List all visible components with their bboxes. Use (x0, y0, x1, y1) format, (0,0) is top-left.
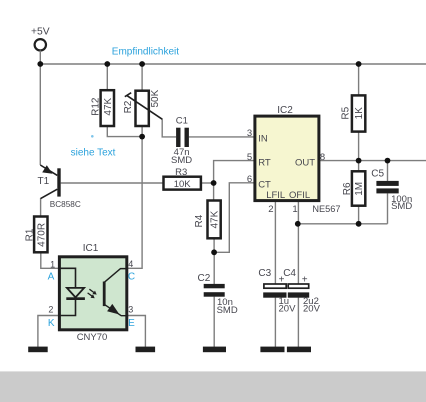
wire C3 to ground (274, 298, 276, 347)
svg-text:R3: R3 (175, 167, 187, 178)
svg-text:CNY70: CNY70 (77, 332, 108, 343)
resistor R3 (164, 167, 201, 190)
svg-text:C3: C3 (258, 268, 271, 279)
ground C4 (287, 347, 311, 353)
resistor R5 (340, 95, 365, 131)
wire filter rail OFIL to C5 (298, 223, 388, 225)
svg-text:OUT: OUT (295, 157, 315, 168)
wire IC2 pin 1 OFIL down to C4 (297, 201, 299, 284)
svg-text:20V: 20V (279, 303, 297, 314)
svg-text:T1: T1 (38, 176, 50, 187)
svg-text:LFIL: LFIL (266, 190, 285, 201)
svg-text:C4: C4 (283, 268, 296, 279)
svg-text:+5V: +5V (31, 26, 50, 37)
wire +5V circle to rail and down to T1 emitter (39, 50, 41, 165)
svg-text:IC1: IC1 (83, 243, 99, 254)
wire C5 bottom to filter rail (387, 193, 389, 223)
wire C1 to IC2 pin 3 IN (189, 136, 255, 138)
wire R2 wiper elbow to C1 (162, 119, 176, 137)
svg-text:IC2: IC2 (277, 105, 293, 116)
node R12 top junction (104, 61, 110, 67)
svg-text:20V: 20V (303, 303, 321, 314)
svg-text:OFIL: OFIL (289, 190, 310, 201)
wire R1 to IC1 pin 1 (41, 252, 60, 268)
gray footer band (0, 371, 426, 402)
capacitor C2 (198, 273, 238, 316)
svg-text:10K: 10K (174, 179, 192, 190)
svg-text:47K: 47K (210, 210, 221, 228)
wire R4 bottom to node (213, 238, 215, 252)
wire R3 to node (201, 182, 214, 184)
wire IC1 pin 2 to ground (38, 316, 60, 348)
wire node down to IC1 pin 4 (127, 137, 142, 269)
svg-text:C2: C2 (198, 273, 211, 284)
wire C5 top stub (387, 161, 389, 181)
svg-text:R4: R4 (194, 214, 205, 227)
wire R12 bottom elbow to node (107, 126, 142, 137)
svg-text:1K: 1K (354, 107, 365, 120)
wire T1 base to R3 (61, 182, 164, 184)
svg-text:A: A (48, 272, 55, 283)
wire R12 top stub (106, 64, 108, 91)
IC1 internal phototransistor (103, 269, 127, 316)
ground C3 (260, 347, 284, 353)
svg-text:6: 6 (247, 174, 252, 185)
svg-text:3: 3 (247, 128, 252, 139)
ground C2 (203, 347, 226, 353)
wire C4 to ground (297, 298, 299, 347)
svg-text:1: 1 (292, 204, 297, 215)
IC1 internal LED (59, 268, 85, 315)
node R4/CT/C2 junction (211, 249, 217, 255)
svg-text:IN: IN (258, 133, 268, 144)
ground IC1 pin 3 (136, 347, 156, 353)
electrolytic capacitor C3 (258, 268, 296, 315)
resistor R1 (25, 217, 48, 253)
svg-text:R2: R2 (123, 100, 134, 113)
potentiometer R2 (123, 89, 162, 126)
wire IC2 pin 2 LFIL down to C3 (274, 201, 276, 284)
tone decoder IC2 NE567 (255, 105, 341, 214)
node +5V/T1 junction (37, 61, 43, 67)
node R12/R2 bottom junction (139, 134, 145, 140)
svg-text:R1: R1 (25, 228, 36, 241)
wire IC2 pin 6 CT elbow to node (214, 183, 255, 253)
node R2 top junction (139, 61, 145, 67)
capacitor C1 (171, 116, 192, 166)
svg-text:2: 2 (268, 204, 273, 215)
node R5/OUT junction (356, 158, 362, 164)
svg-text:+: + (302, 275, 308, 286)
svg-text:470R: 470R (36, 223, 47, 247)
+5V supply symbol (31, 26, 50, 50)
electrolytic capacitor C4 (283, 268, 320, 315)
svg-text:SMD: SMD (171, 155, 192, 166)
wire R6 bottom to filter rail (358, 206, 360, 224)
svg-text:R12: R12 (91, 97, 102, 116)
svg-text:C: C (128, 272, 135, 283)
svg-text:C5: C5 (371, 168, 384, 179)
optocoupler IC1 CNY70 (59, 243, 126, 343)
svg-text:50K: 50K (150, 89, 161, 107)
svg-text:2: 2 (48, 305, 53, 315)
wire IC2 pin 8 OUT rail (319, 160, 426, 162)
resistor R12 (91, 90, 114, 126)
svg-text:47K: 47K (103, 97, 114, 115)
svg-text:C1: C1 (176, 116, 188, 127)
wire R6 top stub (358, 161, 360, 172)
svg-text:Empfindlichkeit: Empfindlichkeit (112, 47, 179, 58)
wire R2 bottom stub (141, 126, 143, 137)
svg-text:SMD: SMD (217, 305, 238, 316)
svg-text:4: 4 (128, 259, 133, 269)
capacitor C5 (371, 168, 412, 212)
svg-text:1M: 1M (354, 182, 365, 196)
wire R5 bottom to OUT rail (358, 132, 360, 161)
svg-text:3: 3 (128, 305, 133, 315)
svg-text:NE567: NE567 (312, 204, 340, 214)
svg-text:SMD: SMD (391, 201, 412, 212)
resistor R4 (194, 201, 221, 239)
node R5 top junction (356, 61, 362, 67)
svg-text:RT: RT (258, 157, 271, 168)
wire C2 to ground (213, 297, 215, 347)
svg-text:K: K (48, 318, 55, 329)
node R3/RT/R4 junction (211, 180, 217, 186)
node C5/OUT junction (385, 158, 391, 164)
wire R5 top stub (358, 64, 360, 96)
svg-text:CT: CT (258, 180, 271, 191)
svg-text:5: 5 (247, 152, 252, 163)
cyan speck (91, 135, 94, 138)
wire +5V top rail (40, 63, 426, 65)
svg-text:E: E (128, 318, 135, 329)
wire R2 top stub (141, 64, 143, 91)
svg-text:BC858C: BC858C (50, 200, 81, 209)
svg-text:8: 8 (320, 152, 325, 163)
resistor R6 (342, 171, 365, 205)
wire node down to C2 (213, 252, 215, 284)
transistor T1 BC858C (38, 165, 81, 209)
node OFIL junction (295, 221, 301, 227)
svg-text:siehe Text: siehe Text (71, 147, 116, 158)
svg-text:R6: R6 (342, 182, 353, 195)
IC1 light arrows (88, 289, 97, 298)
node R6 bottom junction (356, 221, 362, 227)
wire node up to IC2 pin 5 RT (214, 161, 255, 201)
svg-text:R5: R5 (340, 106, 351, 119)
wire T1 collector to R1 (40, 198, 42, 217)
ground IC1 pin 2 (28, 347, 48, 353)
svg-text:1: 1 (50, 259, 55, 269)
wire IC1 pin 3 to ground (127, 316, 146, 348)
